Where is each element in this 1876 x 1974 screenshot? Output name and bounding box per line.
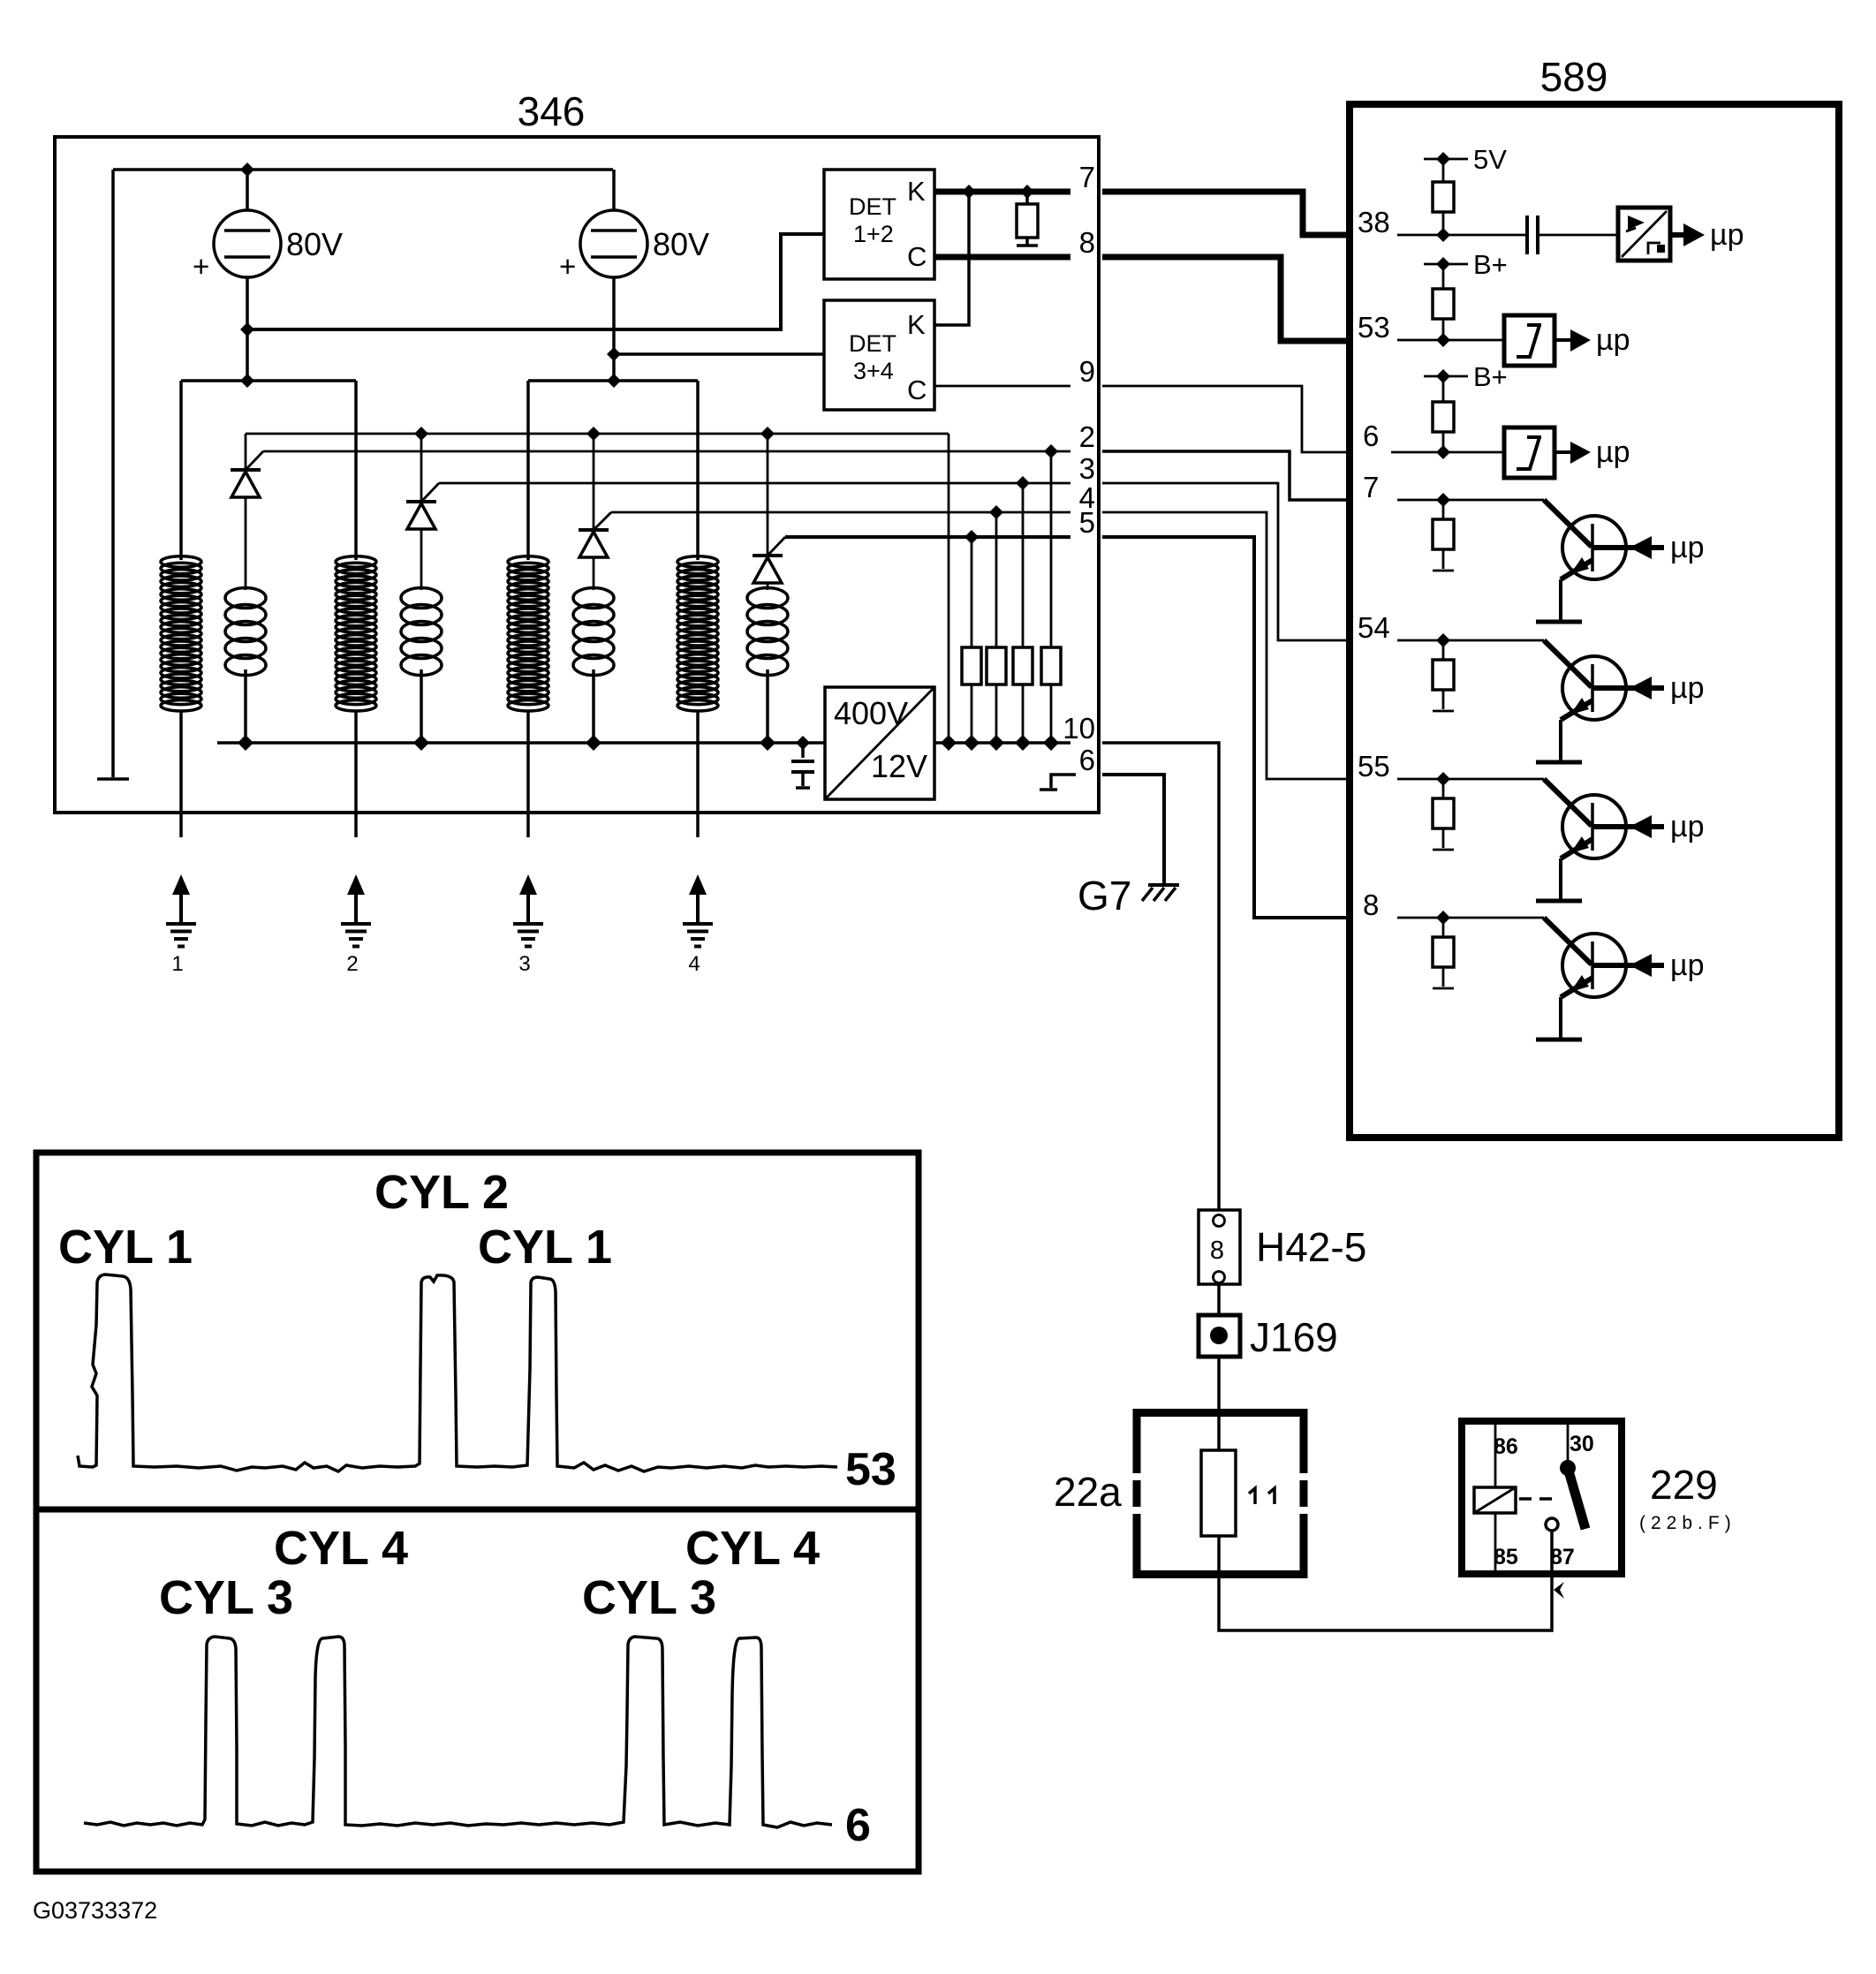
svg-text:6: 6 — [845, 1800, 871, 1851]
waveform trace 6 — [84, 1637, 832, 1827]
wire: V2 bottom lead — [612, 277, 616, 381]
node: rail junction SCR4 — [760, 427, 775, 441]
svg-text:5V: 5V — [1473, 144, 1507, 175]
converter 400V/12V box — [825, 687, 934, 799]
wire: ECU pin8 line — [1397, 917, 1544, 919]
svg-text:CYL 2: CYL 2 — [374, 1166, 509, 1219]
spark plug 4 ground — [683, 924, 713, 947]
transistor Q54 collector — [1544, 640, 1592, 687]
transistor Q7 base bar — [1591, 524, 1594, 571]
wire: pin8 to ECU pin53 (thick) — [1102, 257, 1351, 341]
wire: pin4 to ECU pin55 — [1102, 512, 1351, 779]
module 346 enclosure box — [55, 137, 1099, 813]
wire: pin9 to ECU pin6 — [1102, 386, 1351, 452]
transistor Q8 collector — [1544, 918, 1592, 964]
spark plug 2 arrow electrode — [347, 874, 365, 895]
ignition coil 4 secondary winding — [747, 588, 788, 609]
svg-text:K: K — [907, 176, 926, 207]
svg-text:8: 8 — [1079, 226, 1095, 259]
svg-text:B+: B+ — [1473, 361, 1508, 392]
svg-text:54: 54 — [1358, 611, 1390, 644]
arrow to microprocessor (pin38) — [1670, 232, 1685, 238]
node: rail junction SCR2 — [414, 427, 428, 441]
coupling capacitor on pin38 — [1527, 216, 1538, 254]
svg-text:1+2: 1+2 — [853, 221, 894, 247]
wire: ECU pin6 line — [1391, 451, 1504, 454]
waveform trace 53 — [78, 1274, 837, 1471]
wire: trunk y373 from V1 to DET1+2 input — [247, 234, 824, 329]
svg-text:589: 589 — [1540, 54, 1608, 100]
wire: left inner vertical with end bar — [97, 170, 129, 779]
svg-text:3+4: 3+4 — [853, 358, 894, 384]
svg-text:µp: µp — [1596, 435, 1630, 469]
connector H42-5 box — [1199, 1210, 1240, 1284]
thyristor SCR4 gate lead — [768, 537, 785, 556]
fuse holder 22a box (dashed sides) — [1137, 1413, 1304, 1575]
spark plug 4 arrow electrode — [689, 874, 707, 895]
wire: pin10 down to connector H42-5 — [1102, 743, 1219, 1210]
transistor Q8 base bar — [1591, 942, 1594, 989]
A/D converter box — [1618, 208, 1670, 261]
svg-text:H42-5: H42-5 — [1256, 1224, 1366, 1270]
pulldown resistor (row 7) — [1442, 500, 1445, 519]
transistor Q55 emitter with arrow — [1561, 839, 1592, 858]
thyristor SCR4 triangle — [753, 557, 782, 583]
detector box DET 1+2 — [824, 170, 934, 279]
svg-text:3: 3 — [1079, 452, 1095, 485]
wire: pin6 to ground G7 — [1102, 775, 1164, 884]
transistor Q7 emitter to ground — [1559, 579, 1562, 621]
svg-text:µp: µp — [1670, 810, 1705, 843]
pullup resistor to B+ (row 6) — [1442, 376, 1445, 402]
node: pulldown tap on gate line x1128 — [989, 505, 1003, 519]
wire: common bus y841 left of converter — [217, 741, 825, 745]
node: pin55 pulldown junction — [1436, 772, 1450, 786]
wire: J169 to fuse 22a — [1217, 1357, 1221, 1451]
spark plug 3 arrow electrode — [519, 874, 537, 895]
wire: pin 5 gate line — [785, 535, 1070, 539]
svg-text:7: 7 — [1363, 471, 1379, 503]
pulldown resistor (row 54) — [1442, 640, 1445, 660]
thyristor SCR1 triangle — [231, 472, 260, 497]
wire: SCR top rail y491 — [246, 433, 949, 435]
svg-text:229: 229 — [1650, 1462, 1718, 1508]
A/D digital mark — [1648, 243, 1660, 254]
resistor between pin7 and pin8 lines — [1025, 192, 1029, 204]
ignition coil 3 primary winding — [526, 381, 530, 560]
thyristor SCR3 cathode to secondary — [593, 557, 595, 590]
pulldown resistor x1100 — [971, 537, 973, 647]
pulldown resistor x1128 — [995, 512, 998, 647]
svg-text:3: 3 — [518, 952, 530, 976]
svg-text:8: 8 — [1210, 1237, 1224, 1265]
wire: secondary 3 bottom to common bus — [592, 669, 595, 743]
ignition coil 4 primary winding — [696, 381, 700, 560]
svg-text:µp: µp — [1670, 531, 1705, 564]
svg-text:µp: µp — [1710, 218, 1744, 252]
pullup resistor to 5V — [1442, 159, 1445, 182]
wire: trunk y431 left (primary coils 1,2 tops) — [181, 379, 356, 382]
ignition coil 1 secondary winding — [225, 588, 266, 609]
fuse marks — [1249, 1488, 1275, 1504]
svg-text:G03733372: G03733372 — [33, 1897, 157, 1924]
thyristor SCR2 cathode bar — [406, 500, 436, 503]
V1 battery plates — [224, 231, 270, 257]
svg-text:53: 53 — [1358, 311, 1390, 344]
thyristor SCR3 triangle — [579, 532, 608, 557]
thyristor SCR4 cathode bar — [753, 554, 783, 557]
5V supply node — [1424, 158, 1468, 161]
svg-text:5: 5 — [1079, 506, 1095, 539]
ECU 589 enclosure box — [1350, 104, 1839, 1138]
svg-text:G7: G7 — [1078, 873, 1131, 919]
svg-text:80V: 80V — [653, 226, 709, 262]
svg-text:µp: µp — [1596, 323, 1630, 357]
thyristor SCR4 vertical from rail — [767, 434, 769, 556]
node: DET3+4 K junction on pin7 line — [962, 185, 976, 199]
wire: pin 4 gate line — [611, 511, 1070, 514]
node: capacitor tap on bus — [796, 736, 810, 750]
node: secondary 4 on bus — [760, 735, 775, 751]
svg-text:7: 7 — [1079, 161, 1095, 193]
wire: pin5 to ECU pin8 — [1102, 537, 1351, 918]
wire: H42-5 to J169 — [1217, 1284, 1221, 1315]
svg-text:+: + — [193, 250, 209, 283]
relay wire mark below box — [1554, 1582, 1564, 1599]
transistor Q7 base drive from microprocessor — [1592, 545, 1664, 550]
svg-text:CYL 3: CYL 3 — [582, 1571, 716, 1624]
voltage source V1 80V circle — [214, 210, 281, 277]
wire: pin 2 gate line — [263, 450, 1070, 453]
svg-text:+: + — [559, 250, 576, 283]
transistor Q54 base bar — [1591, 664, 1594, 712]
thyristor SCR1 cathode to secondary — [245, 497, 247, 590]
A/D analog flag — [1628, 216, 1645, 230]
wire: pin7 to ECU pin38 (thick) — [1102, 192, 1351, 235]
thyristor SCR4 cathode to secondary — [767, 583, 769, 590]
relay actuation dashed link — [1519, 1497, 1556, 1501]
node: secondary 1 on bus — [238, 735, 253, 751]
node: pulldown resistor x1128 on bus — [988, 735, 1004, 751]
wire: pin 9 line (DET3+4 C) — [934, 385, 1070, 388]
wire: primary 4 bottom to spark plug — [696, 710, 700, 837]
node: secondary 3 on bus — [586, 735, 601, 751]
ignition coil 2 secondary winding — [401, 588, 442, 609]
wire: pin 8 line (DET1+2 C, thick) — [934, 254, 1070, 261]
thyristor SCR3 vertical from rail — [593, 434, 595, 530]
svg-text:55: 55 — [1358, 750, 1390, 783]
svg-text:CYL 1: CYL 1 — [58, 1221, 193, 1274]
thyristor SCR1 vertical from rail — [245, 434, 247, 470]
pulldown resistor x1190 — [1050, 451, 1053, 647]
node: rail drop on bus — [941, 735, 957, 751]
fuse element 14 — [1201, 1450, 1236, 1536]
thyristor SCR3 gate lead — [594, 512, 611, 530]
spark plug 3 ground — [513, 924, 543, 947]
transistor Q7 emitter with arrow — [1561, 560, 1592, 579]
wire: primary 1 bottom to spark plug — [179, 710, 183, 837]
node: V2 to trunk y431 right — [607, 374, 621, 388]
node: pulldown resistor x1100 on bus — [964, 735, 980, 751]
wire: pin 10 bus right of converter — [934, 741, 1070, 745]
wire: ECU pin7 line — [1397, 499, 1544, 502]
transistor Q55 collector — [1544, 779, 1592, 826]
transistor Q54 body circle — [1562, 656, 1626, 720]
node: V1 to trunk y431 — [240, 374, 254, 388]
wire: primary 3 bottom to spark plug — [526, 710, 530, 837]
pulldown resistor x1158 — [1022, 483, 1025, 647]
node: secondary 2 on bus — [413, 735, 429, 751]
pulldown resistor (row 8) — [1442, 918, 1445, 937]
wire: pin 7 line (DET1+2 K, thick) — [934, 189, 1070, 195]
svg-text:C: C — [907, 374, 927, 405]
svg-text:53: 53 — [845, 1444, 896, 1495]
wire: secondary 4 bottom to common bus — [766, 669, 769, 743]
node: pulldown resistor x1158 on bus — [1015, 735, 1031, 751]
node: pin54 pulldown junction — [1436, 633, 1450, 647]
svg-text:DET: DET — [849, 193, 896, 220]
wire: V2 top lead — [612, 170, 616, 210]
thyristor SCR2 cathode to secondary — [420, 529, 423, 590]
svg-text:346: 346 — [518, 88, 586, 134]
transistor Q54 emitter to ground — [1559, 720, 1562, 761]
thyristor SCR3 cathode bar — [579, 528, 609, 532]
wire: DET3+4 K riser — [934, 192, 969, 325]
svg-text:9: 9 — [1079, 355, 1095, 388]
transistor Q7 body circle — [1562, 516, 1626, 579]
converter diagonal — [825, 687, 934, 799]
transistor Q8 base drive from microprocessor — [1592, 963, 1664, 968]
transistor Q8 body circle — [1562, 934, 1626, 997]
thyristor SCR1 cathode bar — [231, 468, 261, 472]
capacitor to ground stub — [801, 743, 805, 758]
arrow to microprocessor (pin6) — [1555, 450, 1571, 454]
relay coil — [1474, 1487, 1516, 1513]
svg-text:87: 87 — [1550, 1545, 1575, 1569]
arrow to microprocessor (pin53) — [1555, 338, 1571, 342]
node: resistor top junction on pin7 line — [1020, 185, 1034, 199]
transistor Q8 emitter to ground — [1559, 997, 1562, 1039]
svg-text:1: 1 — [171, 952, 183, 976]
node: pulldown tap on gate line x1190 — [1044, 444, 1058, 458]
relay switch arm — [1568, 1468, 1585, 1529]
oscilloscope box (pin 6 waveform) — [36, 1509, 919, 1872]
wire: pin3 to ECU pin54 — [1102, 483, 1351, 640]
node: pulldown resistor x1190 on bus — [1043, 735, 1059, 751]
svg-text:22a: 22a — [1054, 1469, 1122, 1515]
relay contact terminal 87 circle — [1546, 1518, 1558, 1531]
svg-text:38: 38 — [1358, 206, 1390, 238]
transistor Q55 base bar — [1591, 803, 1594, 851]
spark plug 1 ground — [166, 924, 196, 947]
svg-text:CYL 1: CYL 1 — [478, 1221, 612, 1274]
H42-5 bottom terminal — [1214, 1272, 1225, 1283]
relay 229 box — [1462, 1421, 1622, 1574]
ignition coil 3 secondary winding — [573, 588, 614, 609]
ignition coil 2 primary winding — [354, 381, 358, 560]
svg-text:80V: 80V — [286, 226, 343, 262]
transistor Q54 base drive from microprocessor — [1592, 685, 1664, 691]
node: V1 top junction — [240, 163, 254, 177]
voltage source V2 80V circle — [580, 210, 647, 277]
svg-text:86: 86 — [1494, 1434, 1518, 1459]
relay switch terminal 30 stub — [1567, 1425, 1570, 1462]
node: pin6 junction — [1436, 445, 1450, 459]
svg-text:(22b.F): (22b.F) — [1639, 1513, 1736, 1533]
B+ supply node (row 53) — [1424, 263, 1468, 266]
wire: pin2 to ECU pin7 — [1102, 451, 1351, 500]
svg-text:85: 85 — [1494, 1545, 1518, 1569]
node: pulldown tap on gate line x1158 — [1016, 476, 1030, 490]
node: V2 to DET3+4 input — [607, 347, 621, 361]
svg-text:J169: J169 — [1250, 1314, 1338, 1360]
thyristor SCR2 gate lead — [421, 483, 439, 502]
ground G7 symbol — [1148, 883, 1179, 887]
transistor Q8 emitter with arrow — [1561, 978, 1592, 997]
svg-text:6: 6 — [1079, 744, 1095, 776]
svg-text:µp: µp — [1670, 671, 1705, 705]
pulldown resistor (row 55) — [1442, 779, 1445, 798]
wire: secondary 1 bottom to common bus — [244, 669, 247, 743]
svg-text:DET: DET — [849, 330, 896, 357]
wire: pin38 line — [1397, 234, 1618, 237]
hysteresis comparator box (row 53) — [1504, 315, 1555, 366]
svg-text:K: K — [907, 309, 926, 340]
ignition coil 1 primary winding — [179, 381, 183, 560]
relay switch pivot — [1560, 1460, 1576, 1476]
transistor Q55 body circle — [1562, 795, 1626, 858]
spark plug 2 ground — [341, 924, 371, 947]
J169 junction dot — [1210, 1327, 1228, 1344]
detector box DET 3+4 — [824, 300, 934, 410]
wire: fuse to relay contact — [1219, 1531, 1552, 1630]
thyristor SCR2 triangle — [407, 503, 435, 529]
svg-text:6: 6 — [1363, 420, 1379, 452]
relay coil terminal 86 stub — [1494, 1425, 1497, 1487]
H42-5 top terminal — [1214, 1215, 1225, 1227]
svg-text:C: C — [907, 241, 927, 272]
oscilloscope box (pin 53 waveform) — [36, 1153, 919, 1509]
svg-text:µp: µp — [1670, 949, 1705, 982]
thyristor SCR1 gate lead — [246, 451, 263, 470]
wire: secondary 2 bottom to common bus — [420, 669, 423, 743]
svg-text:B+: B+ — [1473, 249, 1508, 280]
transistor Q7 collector — [1544, 500, 1592, 547]
svg-text:12V: 12V — [871, 748, 927, 784]
V2 battery plates — [591, 231, 637, 257]
wire: pin 3 gate line — [439, 482, 1070, 485]
pullup resistor to B+ (row 53) — [1442, 264, 1445, 289]
wire: pin53 line — [1397, 339, 1504, 342]
node: V1 to trunk y373 — [240, 322, 254, 337]
svg-text:10: 10 — [1063, 712, 1095, 745]
hysteresis comparator box (row 6) — [1504, 427, 1555, 478]
wire: SCR rail drop to bus — [948, 434, 950, 743]
svg-text:CYL 4: CYL 4 — [274, 1522, 408, 1575]
relay coil terminal 85 stub — [1494, 1513, 1497, 1570]
svg-text:30: 30 — [1570, 1432, 1594, 1456]
thyristor SCR2 vertical from rail — [420, 434, 423, 502]
node: pin38 junction — [1436, 228, 1450, 242]
node: pulldown tap on gate line x1100 — [964, 530, 979, 544]
svg-text:400V: 400V — [834, 695, 908, 731]
wire: V1 bottom lead — [246, 277, 249, 381]
junction J169 box — [1199, 1315, 1240, 1357]
transistor Q55 emitter to ground — [1559, 858, 1562, 900]
wire: DET3+4 input from V2 — [614, 352, 824, 356]
node: pin53 junction — [1436, 333, 1450, 347]
svg-text:CYL 4: CYL 4 — [685, 1522, 820, 1575]
svg-text:2: 2 — [346, 952, 358, 976]
transistor Q55 base drive from microprocessor — [1592, 824, 1664, 829]
wire: ECU pin54 line — [1397, 639, 1544, 642]
spark plug 1 arrow electrode — [172, 874, 190, 895]
svg-text:8: 8 — [1363, 889, 1379, 921]
wire: V1 top lead — [246, 170, 249, 210]
svg-text:4: 4 — [688, 952, 700, 976]
node: rail junction SCR3 — [586, 427, 601, 441]
chassis step symbol near pin 6 — [1040, 775, 1076, 790]
B+ supply node (row 6) — [1424, 375, 1468, 378]
wire: top rail y192 — [113, 168, 613, 171]
wire: ECU pin55 line — [1397, 778, 1544, 781]
svg-text:CYL 3: CYL 3 — [159, 1571, 293, 1624]
wire: trunk y431 right (primary coils 3,4 tops) — [528, 379, 698, 382]
transistor Q54 emitter with arrow — [1561, 700, 1592, 720]
node: pin8 pulldown junction — [1436, 911, 1450, 925]
node: pin7 pulldown junction — [1436, 493, 1450, 507]
wire: primary 2 bottom to spark plug — [354, 710, 358, 837]
svg-text:2: 2 — [1079, 420, 1095, 453]
